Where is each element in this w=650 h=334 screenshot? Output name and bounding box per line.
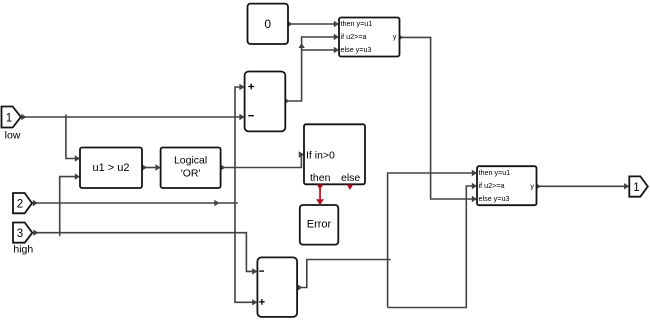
svg-text:else y=u3: else y=u3 bbox=[341, 45, 372, 54]
svg-text:3: 3 bbox=[17, 228, 23, 240]
svg-text:else: else bbox=[341, 172, 360, 184]
svg-text:else y=u3: else y=u3 bbox=[479, 194, 510, 203]
svg-text:Logical: Logical bbox=[174, 155, 207, 167]
svg-text:low: low bbox=[5, 130, 21, 142]
svg-text:2: 2 bbox=[17, 199, 23, 211]
svg-text:1: 1 bbox=[6, 113, 12, 125]
svg-text:y: y bbox=[393, 32, 397, 41]
svg-text:Error: Error bbox=[307, 219, 332, 231]
svg-text:then y=u1: then y=u1 bbox=[479, 168, 511, 177]
svg-text:If in>0: If in>0 bbox=[306, 150, 335, 162]
svg-text:u1 > u2: u1 > u2 bbox=[92, 162, 129, 174]
svg-text:if u2>=a: if u2>=a bbox=[479, 181, 505, 190]
svg-text:then: then bbox=[310, 172, 331, 184]
svg-text:y: y bbox=[530, 181, 534, 190]
svg-text:if u2>=a: if u2>=a bbox=[341, 32, 367, 41]
svg-text:'OR': 'OR' bbox=[181, 168, 201, 180]
svg-text:0: 0 bbox=[264, 17, 271, 31]
svg-text:1: 1 bbox=[633, 182, 639, 194]
svg-text:high: high bbox=[13, 243, 33, 255]
svg-text:then y=u1: then y=u1 bbox=[341, 19, 373, 28]
